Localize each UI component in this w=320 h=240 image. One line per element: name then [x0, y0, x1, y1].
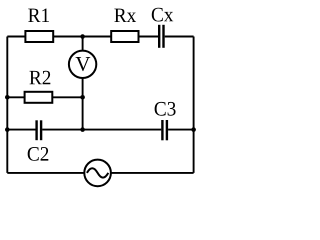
wire voltmeter branch top: [82, 37, 84, 51]
capacitor Cx plate 1: [158, 25, 160, 48]
wire top rail segment node A to Rx: [139, 36, 159, 38]
wire C row right of C3: [168, 129, 194, 131]
label Cx: [152, 8, 173, 22]
wire top rail segment left of R1: [7, 36, 25, 38]
wire voltmeter branch bottom: [82, 78, 84, 130]
wire R2 row left: [7, 96, 24, 98]
wire top rail segment Cx to right rail: [165, 36, 194, 38]
wire R2 row right: [52, 96, 82, 98]
wire top rail segment R1 to node A: [53, 36, 111, 38]
label C2: [28, 147, 49, 161]
resistor Rx: [111, 31, 138, 42]
capacitor Cx plate 2: [162, 25, 164, 48]
node junction C row voltmeter branch: [80, 127, 85, 132]
capacitor C3 plate 1: [161, 120, 163, 140]
label R2: [29, 71, 50, 85]
wire C row left of C2: [7, 129, 35, 131]
node A junction top: [80, 34, 85, 39]
AC source sine wave: [87, 168, 108, 177]
node junction R2 voltmeter branch: [80, 95, 85, 100]
resistor R2: [25, 92, 53, 103]
wire right rail: [193, 37, 195, 173]
label V: [76, 57, 91, 71]
wire left rail: [6, 37, 8, 173]
node junction right rail C row: [191, 127, 196, 132]
wire C row C2 to C3: [42, 129, 161, 131]
voltmeter V circle: [69, 51, 96, 78]
label R1: [28, 8, 49, 22]
resistor R1: [25, 31, 53, 42]
label C3: [155, 102, 176, 116]
label Rx: [114, 9, 136, 22]
capacitor C2 plate 2: [40, 120, 42, 140]
capacitor C3 plate 2: [166, 120, 168, 140]
wire bottom rail right of source: [111, 172, 194, 174]
node junction left rail C row: [5, 127, 10, 132]
capacitor C2 plate 1: [35, 120, 37, 140]
wire bottom rail left of source: [7, 172, 84, 174]
node junction left rail R2 row: [5, 95, 10, 100]
AC source circle: [84, 160, 111, 187]
